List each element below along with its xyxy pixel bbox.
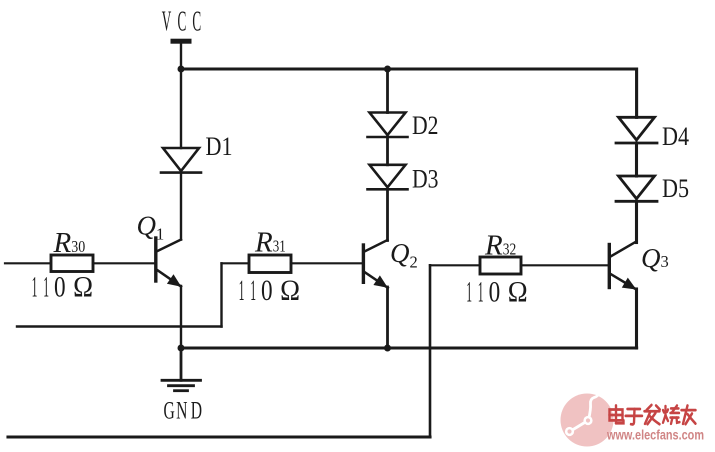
watermark text fa [645, 405, 660, 424]
svg-text:D3: D3 [412, 164, 439, 193]
watermark text dian [610, 406, 624, 424]
diode D3 [368, 165, 408, 190]
wire top rail [181, 69, 637, 117]
wire R30 to Q1 base [93, 262, 155, 264]
diode D1 [161, 148, 201, 173]
wire input 2 vertical riser [220, 263, 222, 326]
power symbol VCC bar [171, 39, 192, 44]
svg-text:GND: GND [164, 397, 203, 424]
wire riser to R31 [222, 262, 250, 264]
resistor R32 [480, 257, 521, 274]
transistor Q2 [363, 240, 387, 288]
transistor Q1 [156, 238, 182, 287]
transistor Q3 [609, 242, 636, 290]
svg-text:VCC: VCC [162, 5, 202, 37]
wire VCC bar to top rail [180, 44, 182, 69]
svg-text:D1: D1 [206, 132, 233, 161]
wire emitter rail [181, 346, 637, 349]
wire input 1 to R30 [5, 262, 51, 264]
watermark text you [682, 406, 696, 425]
svg-text:D2: D2 [412, 111, 439, 140]
resistor R31 [249, 255, 291, 273]
svg-text:D4: D4 [662, 122, 689, 151]
svg-text:www.elecfans.com: www.elecfans.com [606, 428, 704, 443]
wire riser to R32 [430, 264, 480, 266]
wire input 3 vertical riser [429, 265, 432, 437]
watermark text zi [626, 409, 642, 424]
wire rail to D1 anode [180, 69, 182, 148]
wire input 3 bottom rail [8, 435, 430, 438]
node junction at (387.5,348) [384, 345, 391, 352]
diode D2 [368, 113, 408, 138]
node junction at VCC rail (181,69) [178, 66, 185, 73]
wire D1 cathode to Q1 collector [180, 173, 182, 240]
diode D5 [616, 176, 657, 201]
wire D5 cathode to Q3 collector [635, 201, 638, 242]
wire rail to D2 anode [386, 69, 389, 113]
wire Q2 emitter to rail [386, 287, 389, 348]
watermark text shao [663, 406, 680, 424]
wire R31 to Q2 base [291, 262, 362, 264]
svg-text:D5: D5 [662, 174, 689, 203]
diode D4 [616, 117, 657, 143]
wire D3 cathode to Q2 collector [386, 189, 389, 240]
wire D2 to D3 [386, 137, 389, 165]
resistor R30 [51, 255, 93, 272]
watermark logo elecfans [561, 394, 614, 447]
ground [162, 348, 201, 391]
node junction at (181,348) [178, 345, 185, 352]
wire input 2 horizontal [17, 325, 222, 327]
wire R32 to Q3 base [521, 264, 608, 266]
wire Q1 emitter down to ground rail [180, 286, 182, 348]
node junction at (387.5,69) [384, 66, 391, 73]
wire Q3 emitter to rail corner [635, 289, 638, 348]
wire D4 to D5 [635, 143, 638, 176]
